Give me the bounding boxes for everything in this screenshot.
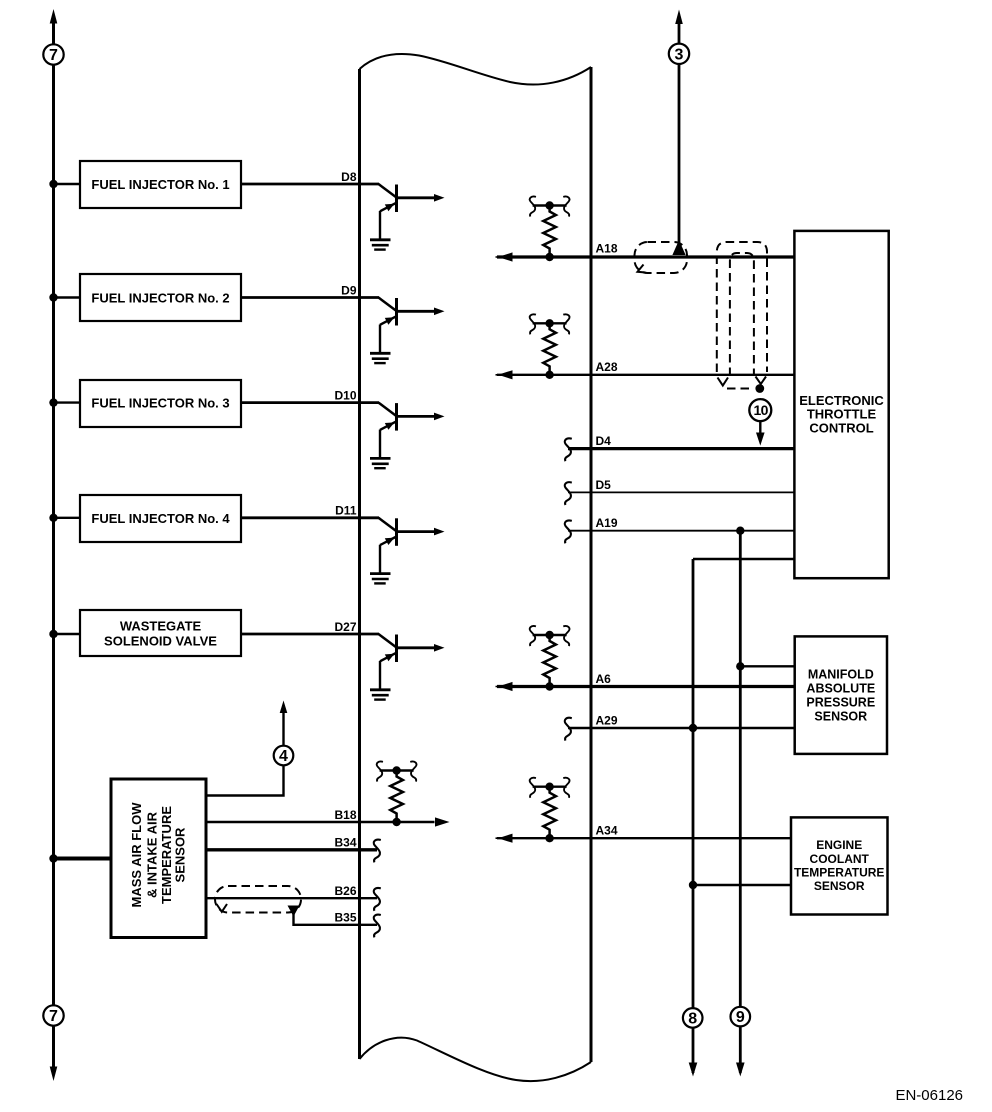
svg-text:ENGINE: ENGINE (816, 838, 862, 852)
svg-text:SENSOR: SENSOR (172, 827, 187, 883)
svg-text:SENSOR: SENSOR (814, 879, 865, 893)
svg-text:A19: A19 (596, 516, 618, 530)
svg-text:TEMPERATURE: TEMPERATURE (794, 865, 884, 879)
svg-text:D10: D10 (334, 388, 356, 402)
svg-text:A6: A6 (596, 672, 612, 686)
svg-text:SOLENOID VALVE: SOLENOID VALVE (104, 634, 217, 649)
svg-text:ABSOLUTE: ABSOLUTE (806, 681, 875, 695)
svg-text:COOLANT: COOLANT (810, 852, 870, 866)
svg-text:A28: A28 (596, 360, 618, 374)
svg-text:8: 8 (688, 1010, 697, 1027)
svg-text:3: 3 (675, 46, 684, 63)
svg-text:& INTAKE AIR: & INTAKE AIR (145, 811, 160, 898)
svg-text:PRESSURE: PRESSURE (806, 696, 875, 710)
svg-text:B34: B34 (334, 836, 356, 850)
svg-text:THROTTLE: THROTTLE (807, 406, 877, 421)
svg-text:B26: B26 (334, 884, 356, 898)
svg-text:7: 7 (49, 1008, 58, 1025)
svg-text:10: 10 (754, 402, 769, 418)
svg-text:D5: D5 (596, 478, 612, 492)
svg-text:EN-06126: EN-06126 (895, 1087, 963, 1104)
svg-text:MASS AIR FLOW: MASS AIR FLOW (129, 802, 144, 908)
svg-text:D8: D8 (341, 170, 357, 184)
svg-text:A34: A34 (596, 824, 618, 838)
svg-text:9: 9 (736, 1009, 745, 1026)
svg-text:WASTEGATE: WASTEGATE (120, 619, 202, 634)
svg-text:FUEL INJECTOR No. 1: FUEL INJECTOR No. 1 (91, 177, 229, 192)
svg-text:D9: D9 (341, 283, 357, 297)
svg-text:CONTROL: CONTROL (809, 421, 873, 436)
svg-text:B35: B35 (334, 911, 356, 925)
svg-text:D4: D4 (596, 434, 612, 448)
svg-text:A29: A29 (596, 713, 618, 727)
svg-text:4: 4 (279, 748, 288, 765)
svg-text:D11: D11 (335, 504, 357, 518)
svg-text:FUEL INJECTOR No. 3: FUEL INJECTOR No. 3 (91, 396, 229, 411)
svg-text:B18: B18 (334, 808, 356, 822)
svg-text:MANIFOLD: MANIFOLD (808, 668, 874, 682)
svg-text:SENSOR: SENSOR (814, 709, 867, 723)
svg-text:7: 7 (49, 47, 58, 64)
svg-text:FUEL INJECTOR No. 4: FUEL INJECTOR No. 4 (91, 511, 230, 526)
svg-text:A18: A18 (596, 242, 618, 256)
svg-text:FUEL INJECTOR No. 2: FUEL INJECTOR No. 2 (91, 291, 229, 306)
svg-text:D27: D27 (334, 620, 356, 634)
